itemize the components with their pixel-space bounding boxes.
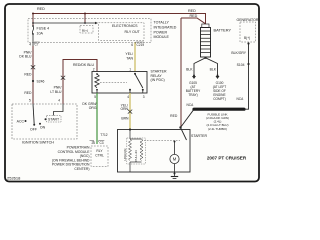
svg-text:ON: ON (40, 126, 46, 130)
svg-text:DK BLU: DK BLU (19, 55, 32, 59)
svg-text:4: 4 (58, 98, 60, 102)
svg-text:1: 1 (129, 67, 131, 71)
svg-text:CTRL: CTRL (95, 153, 104, 157)
svg-text:TRAY): TRAY) (188, 93, 197, 97)
svg-text:LT BLU: LT BLU (50, 90, 62, 94)
svg-text:NCA: NCA (187, 103, 195, 107)
svg-text:5: 5 (94, 95, 96, 99)
svg-text:GENERATOR: GENERATOR (237, 18, 259, 22)
svg-text:RLY OUT: RLY OUT (125, 30, 141, 34)
svg-text:RED: RED (170, 114, 178, 118)
svg-text:RED/DK BLU: RED/DK BLU (73, 63, 94, 67)
svg-text:S246: S246 (37, 80, 45, 84)
svg-text:TOTALLY: TOTALLY (154, 21, 170, 25)
svg-text:T712: T712 (100, 133, 107, 137)
svg-text:M: M (173, 157, 177, 162)
svg-text:2: 2 (93, 67, 95, 71)
svg-text:2007 PT CRUISER: 2007 PT CRUISER (207, 156, 247, 161)
svg-text:S104: S104 (237, 63, 245, 67)
svg-text:5: 5 (29, 98, 31, 102)
svg-text:BLK/GRY: BLK/GRY (231, 51, 246, 55)
svg-text:MODULE: MODULE (154, 35, 170, 39)
svg-text:RED: RED (190, 14, 198, 18)
svg-text:ELECTRONICS: ELECTRONICS (112, 24, 138, 28)
svg-text:3: 3 (143, 95, 145, 99)
svg-text:4: 4 (29, 43, 31, 47)
svg-text:NCA: NCA (237, 97, 245, 101)
svg-text:TAN: TAN (126, 56, 133, 60)
svg-text:(2.4L TURBO): (2.4L TURBO) (208, 127, 227, 131)
svg-text:BRN: BRN (121, 117, 129, 121)
svg-text:HOLD-IN: HOLD-IN (123, 149, 127, 161)
svg-text:ORG: ORG (89, 106, 97, 110)
svg-text:START: START (48, 118, 60, 122)
svg-text:4: 4 (127, 95, 129, 99)
svg-text:RED: RED (24, 91, 32, 95)
svg-text:FUSE 4: FUSE 4 (37, 27, 50, 31)
svg-text:(IN PDC): (IN PDC) (151, 78, 165, 82)
svg-text:BATTERY: BATTERY (214, 27, 232, 32)
svg-text:ACC: ACC (17, 120, 25, 124)
svg-text:10A: 10A (37, 31, 44, 35)
svg-text:BLK: BLK (186, 67, 193, 71)
svg-text:252618: 252618 (7, 176, 21, 181)
svg-text:PULL-IN: PULL-IN (134, 150, 138, 161)
svg-text:BLK: BLK (210, 67, 217, 71)
svg-text:6: 6 (131, 43, 133, 47)
svg-text:RED: RED (24, 73, 32, 77)
svg-text:ORN: ORN (120, 107, 128, 111)
svg-text:RED: RED (188, 9, 196, 13)
svg-text:C7: C7 (35, 43, 39, 47)
svg-text:COMPT): COMPT) (213, 97, 226, 101)
svg-text:OFF: OFF (30, 128, 37, 132)
svg-text:C3: C3 (100, 141, 104, 145)
svg-text:INTEGRATED: INTEGRATED (154, 25, 177, 29)
svg-text:C219: C219 (137, 43, 145, 47)
svg-text:B(+): B(+) (244, 36, 250, 40)
svg-text:POWER: POWER (154, 30, 168, 34)
svg-text:STARTER: STARTER (191, 134, 207, 138)
svg-text:RED: RED (37, 7, 45, 11)
svg-text:B(+): B(+) (82, 28, 88, 32)
svg-text:IGNITION SWITCH: IGNITION SWITCH (22, 141, 54, 145)
svg-text:CENTER): CENTER) (74, 167, 89, 171)
